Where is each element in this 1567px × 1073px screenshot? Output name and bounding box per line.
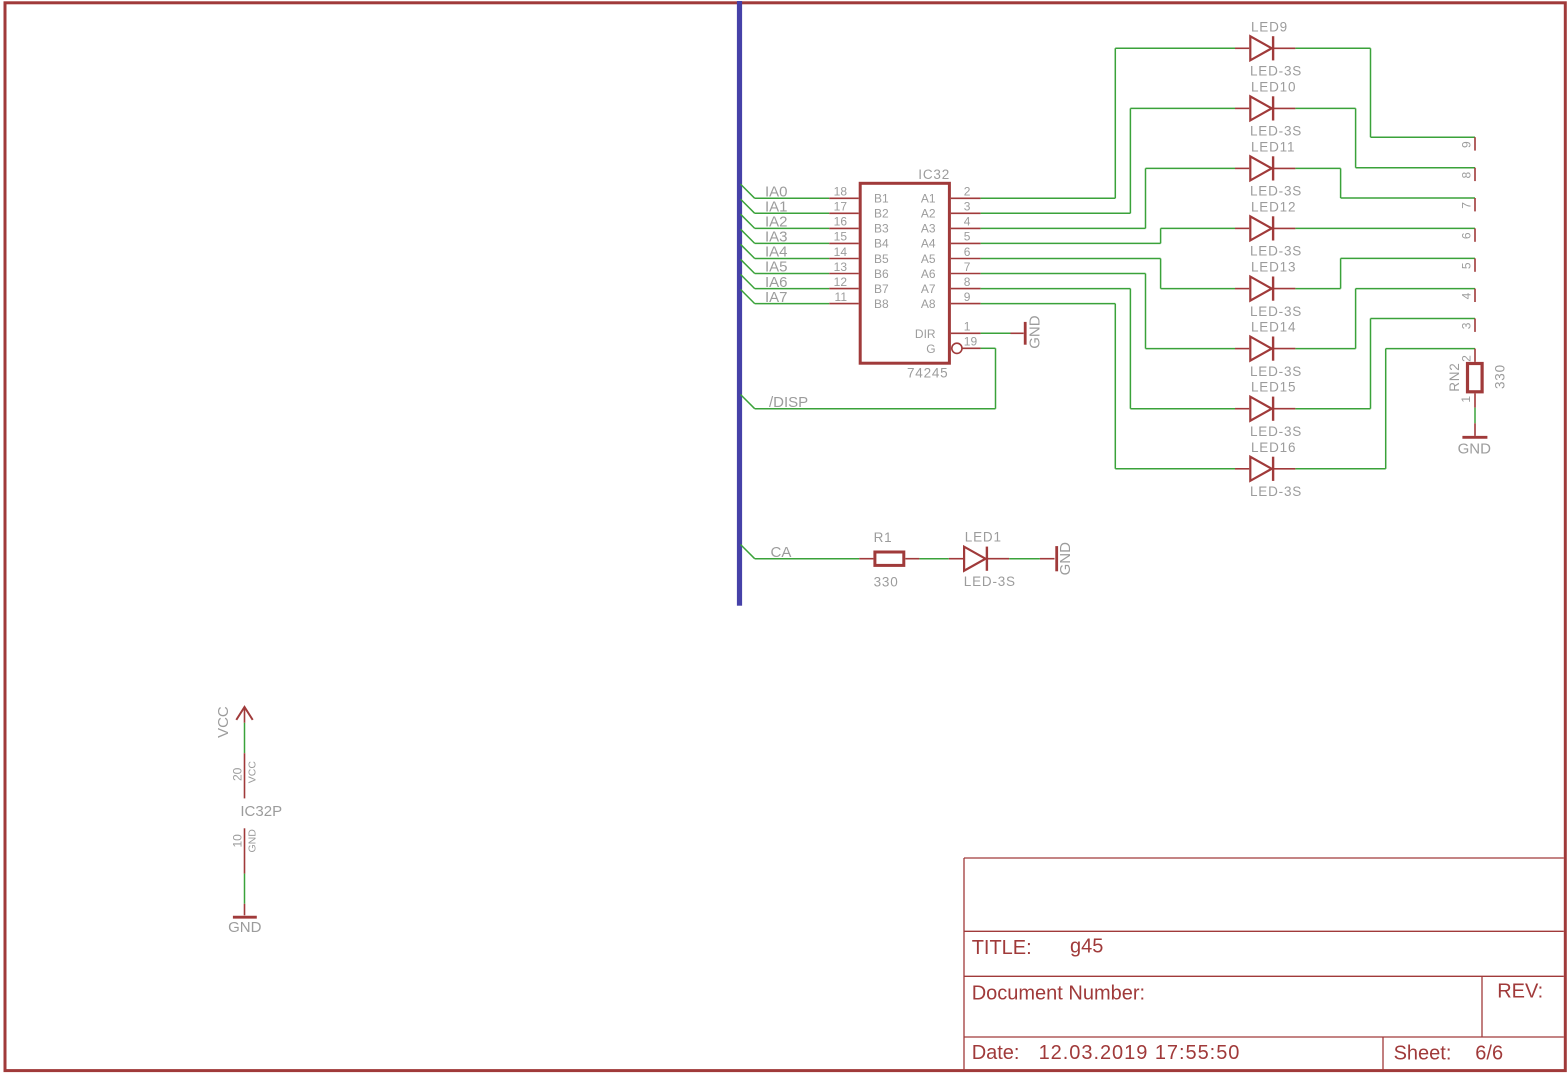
svg-text:IA7: IA7 — [765, 289, 788, 306]
pin B8 (11) — [829, 290, 889, 311]
svg-text:B2: B2 — [874, 207, 889, 221]
svg-text:9: 9 — [964, 290, 971, 304]
LED LED14 — [1235, 320, 1302, 379]
svg-text:5: 5 — [1459, 262, 1473, 269]
svg-text:VCC: VCC — [215, 706, 232, 738]
svg-text:14: 14 — [834, 245, 848, 259]
svg-text:GND: GND — [228, 919, 262, 936]
svg-text:g45: g45 — [1070, 935, 1103, 957]
wire LED1 cathode to GND — [1009, 558, 1040, 560]
wire LED15 cathode to RN2 pin 3 — [1295, 319, 1475, 409]
svg-text:74245: 74245 — [907, 366, 949, 381]
svg-text:11: 11 — [835, 290, 848, 304]
svg-text:LED-3S: LED-3S — [1250, 424, 1302, 439]
wire pin 10 to GND — [244, 874, 246, 904]
pin A2 (3) — [921, 200, 981, 221]
pin A8 (9) — [921, 290, 981, 311]
svg-text:LED-3S: LED-3S — [1250, 184, 1302, 199]
wire IA0 — [741, 184, 830, 198]
svg-text:8: 8 — [964, 275, 971, 289]
svg-text:B6: B6 — [874, 267, 889, 281]
svg-text:7: 7 — [1459, 202, 1473, 209]
svg-text:LED1: LED1 — [965, 530, 1002, 545]
wire A2 to LED10 anode — [981, 108, 1235, 213]
svg-text:A8: A8 — [921, 297, 936, 311]
svg-text:LED-3S: LED-3S — [1250, 244, 1302, 259]
svg-text:A5: A5 — [921, 252, 936, 266]
svg-text:A2: A2 — [921, 207, 936, 221]
svg-text:1: 1 — [964, 320, 971, 334]
transistor IC32P power pins — [230, 753, 282, 873]
svg-text:A1: A1 — [921, 192, 936, 206]
svg-text:9: 9 — [1459, 141, 1473, 148]
svg-text:LED9: LED9 — [1251, 19, 1288, 34]
svg-text:A6: A6 — [921, 267, 936, 281]
resistor network RN2 330 — [1447, 137, 1508, 408]
wire A4 to LED12 anode — [981, 228, 1235, 243]
wire LED12 cathode to RN2 pin 6 — [1295, 227, 1475, 229]
ground GND at DIR pin — [981, 315, 1044, 349]
wire A6 to LED14 anode — [981, 274, 1235, 349]
wire A1 to LED9 anode — [981, 48, 1235, 198]
svg-text:DIR: DIR — [915, 327, 936, 341]
wire VCC to pin 20 — [244, 723, 246, 753]
pin B7 (12) — [829, 275, 889, 296]
pin B5 (14) — [829, 245, 889, 266]
ground GND below IC32P — [228, 904, 262, 936]
svg-text:3: 3 — [964, 200, 971, 214]
svg-text:B4: B4 — [874, 237, 889, 251]
svg-text:B3: B3 — [874, 222, 889, 236]
pin A6 (7) — [921, 260, 981, 281]
wire A7 to LED15 anode — [981, 289, 1235, 409]
svg-text:GND: GND — [1057, 542, 1074, 576]
ground GND at LED1 — [1040, 542, 1074, 576]
svg-text:A7: A7 — [921, 282, 936, 296]
svg-text:6/6: 6/6 — [1475, 1043, 1503, 1065]
svg-text:Date:: Date: — [972, 1042, 1020, 1064]
wire LED14 cathode to RN2 pin 4 — [1295, 289, 1475, 349]
LED LED13 — [1235, 260, 1302, 319]
svg-text:GND: GND — [1458, 440, 1492, 457]
svg-text:IC32P: IC32P — [240, 803, 282, 820]
pin A5 (6) — [921, 245, 981, 266]
svg-text:LED-3S: LED-3S — [1250, 364, 1302, 379]
svg-text:TITLE:: TITLE: — [972, 937, 1032, 959]
title text g45 — [972, 935, 1104, 959]
wire LED13 cathode to RN2 pin 5 — [1295, 258, 1475, 288]
pin A7 (8) — [921, 275, 981, 296]
svg-text:8: 8 — [1459, 171, 1473, 178]
svg-text:CA: CA — [771, 544, 792, 561]
LED LED9 — [1235, 19, 1302, 78]
svg-text:19: 19 — [964, 334, 978, 348]
pin G (19) inverting bubble — [926, 334, 980, 356]
svg-text:G: G — [926, 342, 935, 356]
wire IA4 — [741, 244, 830, 258]
LED LED15 — [1235, 380, 1302, 439]
pin B6 (13) — [829, 260, 889, 281]
svg-text:LED-3S: LED-3S — [1250, 484, 1302, 499]
wire LED10 cathode to RN2 pin 8 — [1295, 108, 1475, 167]
wire IA1 — [741, 199, 830, 213]
svg-text:18: 18 — [834, 185, 848, 199]
wire CA — [741, 545, 860, 559]
svg-text:B5: B5 — [874, 252, 889, 266]
svg-text:Sheet:: Sheet: — [1394, 1043, 1452, 1065]
power VCC symbol — [236, 707, 252, 723]
svg-text:LED15: LED15 — [1251, 380, 1296, 395]
svg-text:LED-3S: LED-3S — [1250, 64, 1302, 79]
svg-text:/DISP: /DISP — [769, 394, 808, 411]
svg-text:4: 4 — [1459, 292, 1473, 299]
LED LED10 — [1235, 79, 1302, 138]
svg-text:R1: R1 — [874, 530, 893, 545]
ground GND below RN2 — [1458, 423, 1492, 457]
wire R1 to LED1 — [919, 558, 948, 560]
svg-text:5: 5 — [964, 230, 971, 244]
svg-text:LED-3S: LED-3S — [964, 574, 1016, 589]
svg-text:20: 20 — [230, 767, 244, 781]
svg-text:GND: GND — [1027, 315, 1044, 349]
wire A5 to LED13 anode — [981, 259, 1235, 289]
svg-text:6: 6 — [964, 245, 971, 259]
wire LED16 cathode to RN2 pin 2 — [1295, 349, 1475, 469]
svg-text:A3: A3 — [921, 222, 936, 236]
pin B2 (17) — [829, 200, 889, 221]
svg-text:3: 3 — [1459, 322, 1473, 329]
wire LED11 cathode to RN2 pin 7 — [1295, 168, 1475, 198]
LED LED1 — [949, 530, 1016, 589]
svg-text:2: 2 — [1459, 355, 1473, 362]
svg-text:LED13: LED13 — [1251, 260, 1296, 275]
svg-text:12.03.2019 17:55:50: 12.03.2019 17:55:50 — [1039, 1042, 1240, 1064]
svg-text:Document Number:: Document Number: — [972, 982, 1145, 1004]
svg-text:LED-3S: LED-3S — [1250, 124, 1302, 139]
wire IA3 — [741, 229, 830, 243]
wire A8 to LED16 anode — [981, 304, 1235, 469]
svg-text:LED14: LED14 — [1251, 320, 1296, 335]
svg-text:B1: B1 — [874, 192, 889, 206]
svg-text:B7: B7 — [874, 282, 889, 296]
wire LED9 cathode to RN2 pin 9 — [1295, 48, 1475, 137]
wire RN2 pin 1 to GND — [1474, 408, 1476, 424]
svg-text:VCC: VCC — [247, 761, 259, 784]
svg-text:330: 330 — [1493, 364, 1508, 389]
pin A4 (5) — [921, 230, 981, 251]
pin A1 (2) — [921, 185, 981, 206]
LED LED16 — [1235, 440, 1302, 499]
svg-text:LED16: LED16 — [1251, 440, 1296, 455]
svg-text:10: 10 — [230, 834, 244, 848]
pin DIR (1) — [915, 320, 981, 341]
svg-text:LED10: LED10 — [1251, 79, 1296, 94]
LED LED11 — [1235, 139, 1302, 198]
wire IA6 — [741, 274, 830, 288]
svg-text:2: 2 — [964, 185, 971, 199]
document number label — [972, 980, 1543, 1004]
svg-text:B8: B8 — [874, 297, 889, 311]
wire A3 to LED11 anode — [981, 168, 1235, 228]
LED LED12 — [1235, 199, 1302, 258]
op-amp IC32 74245 octal bus transceiver — [860, 167, 950, 381]
svg-text:1: 1 — [1459, 396, 1473, 403]
svg-text:15: 15 — [834, 230, 848, 244]
svg-text:13: 13 — [834, 260, 848, 274]
pin B4 (15) — [829, 230, 889, 251]
pin A3 (4) — [921, 215, 981, 236]
svg-text:12: 12 — [834, 275, 848, 289]
pin B1 (18) — [829, 185, 889, 206]
wire IA2 — [741, 214, 830, 228]
svg-text:7: 7 — [964, 260, 971, 274]
svg-text:IC32: IC32 — [918, 167, 950, 182]
date and sheet — [972, 1042, 1503, 1064]
pin B3 (16) — [829, 215, 889, 236]
svg-text:6: 6 — [1459, 232, 1473, 239]
svg-text:330: 330 — [874, 574, 899, 589]
svg-text:GND: GND — [247, 829, 259, 853]
bus — [737, 1, 742, 606]
wire IA5 — [741, 259, 830, 273]
svg-text:LED12: LED12 — [1251, 199, 1296, 214]
svg-text:16: 16 — [834, 215, 848, 229]
resistor R1 330 — [859, 530, 919, 590]
svg-text:LED11: LED11 — [1251, 139, 1295, 154]
svg-text:LED-3S: LED-3S — [1250, 304, 1302, 319]
title block — [964, 858, 1564, 1069]
svg-text:4: 4 — [964, 215, 971, 229]
svg-text:17: 17 — [834, 200, 848, 214]
svg-text:A4: A4 — [921, 237, 936, 251]
svg-text:RN2: RN2 — [1447, 362, 1462, 391]
wire IA7 — [741, 289, 830, 303]
svg-text:REV:: REV: — [1497, 980, 1543, 1002]
wire /DISP — [741, 348, 996, 408]
